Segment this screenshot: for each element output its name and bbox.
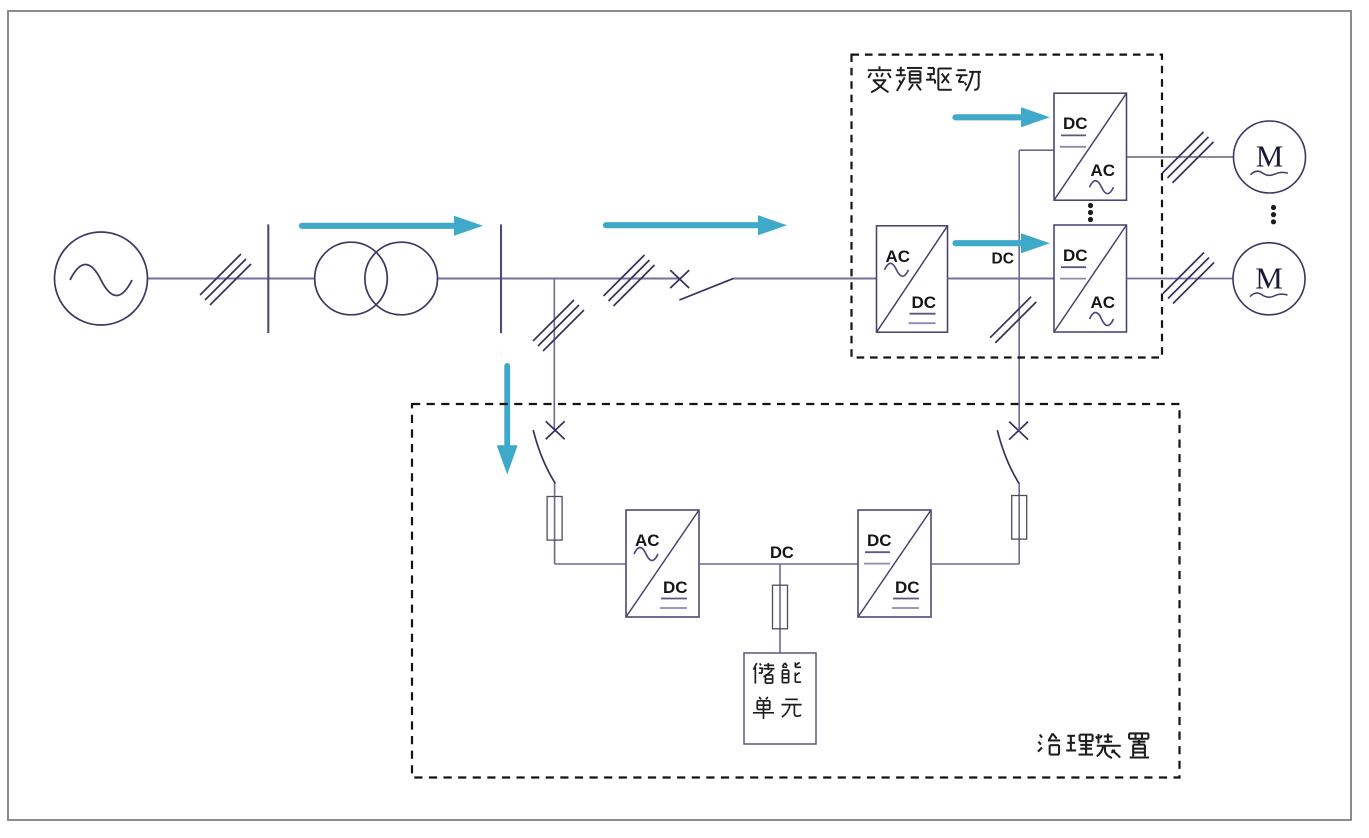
svg-text:DC: DC: [912, 293, 937, 312]
wire drop from node N1: [553, 279, 555, 431]
AC source G1: [55, 232, 148, 325]
switch QF1: [670, 270, 734, 300]
svg-text:M: M: [1255, 260, 1283, 295]
fuse F3: [1012, 496, 1027, 540]
power flow arrow A1: [302, 216, 483, 236]
motor M2: [1233, 243, 1305, 315]
ellipsis between motors: [1271, 205, 1276, 225]
label 治理装置: [1038, 733, 1149, 758]
wire inverter U2a to motor M1: [1127, 156, 1233, 158]
wire DC link U3 to U4: [699, 563, 858, 565]
three-phase marks on source feeder: [200, 254, 251, 305]
wire main bus: switch QF1 to rectifier U1: [734, 277, 877, 279]
svg-text:DC: DC: [1063, 246, 1088, 265]
rectifier U1 AC/DC: [877, 226, 948, 332]
inverter U2b DC/AC: [1054, 225, 1127, 332]
wire main bus: source to transformer: [148, 277, 315, 279]
label 变频驱动: [868, 66, 981, 92]
motor M1: [1234, 121, 1306, 193]
busbar B2: [500, 224, 502, 333]
power flow arrow A2: [606, 215, 787, 235]
svg-text:DC: DC: [867, 531, 892, 550]
two-phase marks on riser: [990, 297, 1036, 343]
VFD enclosure (dashed): [852, 55, 1163, 358]
switch QS3: [997, 422, 1028, 484]
svg-text:DC: DC: [895, 578, 920, 597]
svg-text:DC: DC: [1063, 114, 1088, 133]
label DC net of VFD: [992, 251, 1014, 268]
energy storage unit box: [744, 653, 816, 744]
treatment device enclosure (dashed): [412, 404, 1180, 778]
three-phase marks on motor M2 feeder: [1163, 253, 1214, 304]
label 储能单元: [753, 662, 802, 719]
wire rectifier U1 to inverter U2b: [948, 277, 1055, 279]
power flow arrow A4: [956, 233, 1051, 253]
label DC net: [770, 544, 794, 562]
ellipsis between inverters: [1088, 203, 1093, 222]
wire switch QS2 to fuse F1: [554, 484, 556, 564]
svg-text:AC: AC: [1091, 293, 1116, 312]
converter U3 AC/DC: [626, 510, 699, 617]
busbar B1: [267, 224, 269, 333]
fuse F2: [773, 585, 788, 629]
fuse F1: [547, 497, 562, 541]
down power flow arrow A5: [497, 366, 518, 475]
svg-text:M: M: [1256, 139, 1284, 174]
wire to converter U3 input: [555, 563, 626, 565]
power flow arrow A3: [956, 107, 1051, 127]
three-phase marks after busbar B2: [604, 255, 655, 306]
wire U4 output to riser: [931, 563, 1019, 565]
wire riser up to VFD dc link: [1018, 150, 1020, 430]
inverter U2a DC/AC: [1054, 93, 1127, 200]
transformer T1: [315, 242, 438, 315]
svg-text:DC: DC: [992, 251, 1014, 268]
wire inverter U2b to motor M2: [1127, 278, 1233, 280]
wire DC tap to storage unit: [779, 564, 781, 653]
switch QS2: [533, 421, 565, 483]
three-phase marks on drop feeder: [533, 300, 584, 351]
wire main bus: transformer to switch QF1: [437, 277, 680, 279]
three-phase marks on motor M1 feeder: [1163, 132, 1214, 183]
svg-text:DC: DC: [770, 544, 794, 562]
svg-text:DC: DC: [663, 578, 688, 597]
converter U4 DC/DC: [858, 510, 931, 617]
wire riser to switch QS3: [1018, 484, 1020, 564]
wire dc stub to inverter U2a: [1019, 149, 1054, 151]
svg-text:AC: AC: [1091, 161, 1116, 180]
